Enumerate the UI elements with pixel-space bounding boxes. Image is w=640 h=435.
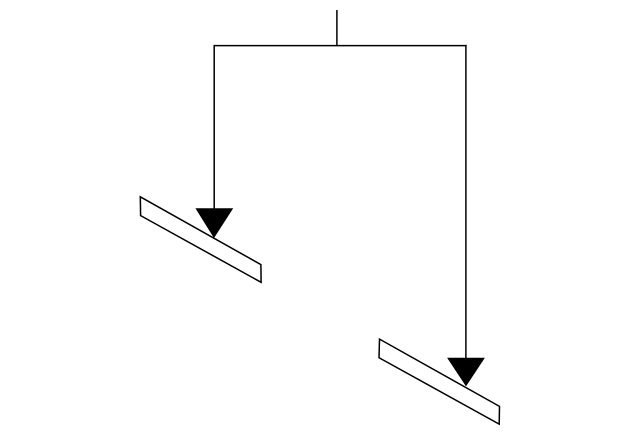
wire: top vertical stub <box>336 10 338 46</box>
wire: left vertical drop <box>213 45 215 210</box>
wire: horizontal bus <box>214 45 467 47</box>
arrowhead: left down arrow <box>195 208 233 238</box>
plate: right slanted parallelogram <box>379 339 500 424</box>
plate: left slanted parallelogram <box>140 197 261 282</box>
arrowhead: right down arrow <box>447 358 485 387</box>
wire: right vertical drop <box>465 45 467 359</box>
